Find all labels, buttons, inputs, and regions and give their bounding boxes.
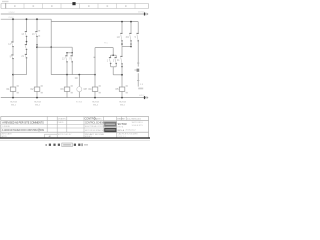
- coil pin A1: [99, 85, 101, 87]
- contact blade: [121, 34, 122, 41]
- svg-text:9CT03: 9CT03: [34, 101, 41, 103]
- svg-text:13: 13: [62, 59, 65, 61]
- junction dot H2 95: [94, 74, 96, 76]
- branch 138 mid: [137, 41, 139, 67]
- contact terminal top: [25, 44, 27, 45]
- svg-text:M3-1: M3-1: [11, 105, 17, 107]
- svg-text:WH: WH: [83, 89, 87, 91]
- rail 2 left part: [1, 18, 51, 20]
- svg-text:REV A: REV A: [118, 125, 124, 128]
- split dot 113: [112, 54, 114, 56]
- contact blade: [25, 33, 26, 37]
- split bar y52.8: [67, 52, 72, 54]
- svg-text:9: 9: [10, 57, 12, 59]
- contact terminal bottom: [121, 63, 122, 64]
- svg-text:13: 13: [8, 44, 11, 46]
- coil box: [34, 87, 40, 91]
- contact terminal top: [25, 30, 27, 33]
- branch B corner to A: [13, 74, 27, 76]
- branch C coil tail: [36, 91, 38, 97]
- branch 138 low: [137, 73, 139, 86]
- junction dot H2 79: [78, 74, 80, 76]
- svg-text:SHT 3 OF 6: SHT 3 OF 6: [132, 122, 144, 124]
- coil box: [119, 87, 125, 91]
- svg-text:K5: K5: [116, 89, 120, 91]
- contact blade: [121, 57, 122, 64]
- junction dot C rail: [36, 97, 38, 99]
- dot 122 66.6: [121, 66, 123, 68]
- contact terminal top: [71, 55, 73, 56]
- coil K3 drop: [66, 75, 68, 87]
- bottom rail right ref mark: [144, 96, 145, 99]
- svg-text:1: 1: [107, 60, 109, 62]
- contact terminal bottom: [72, 61, 73, 62]
- svg-text:APPROVED BY: APPROVED BY: [58, 133, 72, 136]
- svg-text:21: 21: [21, 56, 24, 58]
- svg-text:K3: K3: [61, 89, 65, 91]
- coil pin A2: [41, 92, 43, 94]
- tb right border: [148, 116, 150, 138]
- zone numbers: [14, 5, 127, 7]
- svg-text:1/2: 1/2: [117, 37, 121, 39]
- sub wire 72 down: [71, 62, 73, 75]
- dot 122 44: [121, 43, 123, 45]
- branch A wire low: [12, 59, 14, 88]
- zone divider ticks: [6, 3, 135, 8]
- svg-text:M3-4: M3-4: [93, 105, 99, 107]
- branch A wire mid: [12, 47, 14, 56]
- branch 138 top: [137, 22, 139, 34]
- logo lower text dashes: [105, 129, 115, 130]
- contact blade: [137, 34, 138, 41]
- junction dot A T: [12, 74, 14, 76]
- contact blade: [66, 57, 67, 62]
- svg-text:1.3: 1.3: [140, 84, 144, 86]
- split dot 72: [71, 52, 73, 54]
- H1 corner down: [71, 47, 73, 53]
- svg-text:9CT03: 9CT03: [92, 101, 99, 103]
- pin numbers: [38, 30, 40, 31]
- svg-text:A REVISED AS PER SITE COMMENTS: A REVISED AS PER SITE COMMENTS: [2, 122, 44, 125]
- rail L1: [1, 13, 146, 15]
- tb logo upper: [104, 122, 116, 127]
- tb logo lower: [104, 128, 116, 133]
- contact terminal bottom: [26, 57, 27, 58]
- svg-text:MOTOR M3 STARTER: MOTOR M3 STARTER: [85, 129, 105, 132]
- H3 corner down: [112, 48, 114, 56]
- contact terminal top: [129, 33, 131, 34]
- sub wire 67 up: [66, 53, 68, 56]
- svg-text:M3-5: M3-5: [120, 105, 126, 107]
- coil pin A1: [71, 85, 73, 87]
- net H2: [51, 74, 95, 76]
- tick 138 80.5: [137, 79, 139, 82]
- svg-text:A 12/04/13 ISSUED FOR CONSTRUC: A 12/04/13 ISSUED FOR CONSTRUCTION: [2, 129, 44, 132]
- contact terminal top: [11, 55, 13, 56]
- junction dot 95 rail: [94, 97, 96, 99]
- svg-text:41: 41: [117, 60, 120, 62]
- branch 122 m1: [121, 41, 123, 47]
- svg-text:3/4: 3/4: [126, 37, 130, 39]
- coil box: [10, 87, 16, 91]
- svg-text:24VDC: 24VDC: [9, 12, 16, 14]
- zone strip bottom line: [1, 8, 149, 10]
- lamp label small: [75, 77, 78, 79]
- rail L1 right ref mark: [144, 13, 145, 16]
- tb line3: [1, 123, 104, 125]
- contact terminal bottom: [12, 58, 13, 59]
- branch B wire top: [26, 19, 28, 31]
- svg-text:PANEL: PANEL: [95, 117, 103, 120]
- branch B wire m1: [26, 36, 28, 44]
- merge bar y66.8: [111, 66, 117, 68]
- contact blade: [12, 43, 13, 47]
- sub wire 72 up: [71, 53, 73, 56]
- split bar y55.2: [111, 54, 117, 56]
- contact terminal top: [137, 33, 139, 34]
- coil pin A1: [126, 85, 128, 87]
- rail 2 right part: [51, 21, 138, 23]
- zone strip top line: [1, 3, 149, 5]
- branch C wire long: [36, 36, 38, 87]
- sub 116 up: [115, 55, 117, 57]
- svg-text:SCALE NTS: SCALE NTS: [132, 124, 144, 127]
- contact blade: [109, 59, 110, 64]
- contact J2 body: [137, 69, 140, 72]
- svg-text:3: 3: [113, 60, 115, 62]
- svg-text:13: 13: [32, 34, 35, 36]
- contact terminal bottom: [130, 40, 131, 41]
- net H3: [95, 47, 113, 49]
- merged wire down: [112, 67, 114, 75]
- sub wire 67 down: [66, 62, 68, 75]
- svg-text:REV A: REV A: [118, 129, 125, 132]
- svg-text:0 ISSUE: 0 ISSUE: [2, 126, 10, 128]
- coil pin A2: [99, 92, 101, 94]
- contact terminal top: [115, 57, 117, 58]
- junction dot 122 rail2: [121, 21, 123, 23]
- zone strip left end: [0, 4, 2, 9]
- junction dot B rail2: [26, 18, 28, 20]
- junction dot 122 H4: [121, 74, 123, 76]
- svg-text:CHKD: CHKD: [58, 122, 64, 124]
- branch 122 m2: [121, 47, 123, 57]
- junction dot A rail2: [12, 18, 14, 20]
- coil pin A2: [126, 92, 128, 94]
- contact terminal bottom: [66, 61, 67, 62]
- faint header text top-left: [2, 1, 9, 2]
- tb top line: [1, 115, 149, 117]
- junction dot H2 67: [66, 74, 68, 76]
- coil box: [64, 87, 70, 91]
- svg-text:K1: K1: [7, 89, 11, 91]
- junction dot 122 rail: [121, 97, 123, 99]
- bottom rail: [1, 97, 146, 99]
- junction dot A rail: [12, 97, 14, 99]
- tick 138 63: [137, 62, 139, 65]
- branch C wire top: [36, 19, 38, 31]
- junction dot B 41.6: [26, 41, 28, 43]
- logo texture slit: [105, 123, 115, 126]
- branch A wire top: [12, 19, 14, 42]
- svg-text:9: 9: [69, 59, 71, 61]
- sub 110 up: [110, 55, 112, 57]
- coil box: [92, 87, 98, 91]
- branch B wire low: [26, 58, 28, 75]
- viewer faint line: [0, 139, 150, 142]
- split dot 67: [66, 52, 68, 54]
- tick 95: [94, 56, 96, 59]
- contact blade: [36, 33, 37, 37]
- contact blade: [25, 46, 26, 50]
- contact terminal bottom: [116, 63, 117, 64]
- branch 131 low: [130, 41, 132, 47]
- svg-text:DRAWN: DRAWN: [58, 117, 66, 120]
- net H1: [37, 46, 72, 48]
- svg-text:K4: K4: [89, 89, 93, 91]
- svg-text:JM: JM: [41, 130, 44, 132]
- svg-text:M3-2: M3-2: [35, 105, 41, 107]
- svg-text:9CT03: 9CT03: [76, 101, 83, 103]
- page bottom thick border: [0, 137, 150, 138]
- tb line5: [1, 131, 149, 133]
- svg-text:D-123456-001: D-123456-001: [127, 119, 142, 121]
- svg-text:K2: K2: [31, 89, 35, 91]
- label 138 end: [138, 88, 143, 90]
- contact terminal top: [65, 55, 67, 56]
- branch 122 low: [121, 64, 123, 87]
- contact blade: [130, 34, 131, 41]
- pager buttons left: [49, 144, 51, 146]
- contact terminal top: [35, 30, 37, 33]
- svg-text:24VDC: 24VDC: [138, 11, 145, 13]
- junction dot x51/H1: [50, 46, 52, 48]
- contact terminal top: [120, 33, 122, 34]
- pager box: [62, 143, 73, 147]
- lamp tail: [78, 92, 80, 98]
- svg-text:0VDC: 0VDC: [139, 95, 145, 97]
- contact blade: [12, 56, 13, 59]
- lamp circle: [77, 87, 82, 92]
- svg-text:2013-04-12: 2013-04-12: [125, 130, 136, 132]
- svg-text:9CT03: 9CT03: [119, 101, 126, 103]
- tb line2: [1, 119, 149, 121]
- branch 95 tail: [94, 91, 96, 97]
- junction dot C rail2: [36, 18, 38, 20]
- tb line4: [1, 127, 104, 129]
- rail 2 step: [50, 19, 52, 21]
- coil pin A2: [71, 92, 73, 94]
- branch 131 top: [130, 22, 132, 34]
- lamp drop: [78, 75, 80, 87]
- svg-text:5: 5: [135, 37, 137, 39]
- viewer small dot: [45, 144, 47, 146]
- pager buttons right: [74, 144, 76, 146]
- coil pin A1: [17, 85, 19, 87]
- pager box text: [63, 144, 71, 146]
- contact terminal bottom: [26, 49, 27, 50]
- branch 95 wire: [94, 48, 96, 87]
- contact terminal top: [120, 56, 122, 57]
- branch A coil tail: [12, 91, 14, 97]
- zone strip right end: [147, 4, 149, 9]
- contact blade: [115, 59, 116, 64]
- svg-text:9CT03: 9CT03: [118, 122, 127, 126]
- centering mark: [72, 2, 75, 5]
- merge bar y46.6: [122, 46, 131, 48]
- contact terminal bottom: [26, 36, 27, 37]
- contact terminal bottom: [121, 40, 122, 41]
- branch 122 top: [121, 22, 123, 34]
- sub 116 down: [115, 63, 117, 66]
- coil K3 tail: [66, 91, 68, 97]
- small dot C 44.8: [36, 44, 38, 46]
- dot 131 merge: [130, 46, 132, 48]
- junction dot 131 rail2: [130, 21, 132, 23]
- contact J2 bar: [134, 69, 138, 71]
- svg-text:13: 13: [21, 34, 24, 36]
- branch B wire m2: [26, 49, 28, 54]
- tb verticals: [39, 116, 126, 137]
- contact terminal bottom: [138, 40, 139, 41]
- pager extra marks right: [81, 143, 82, 146]
- contact blade: [25, 55, 26, 58]
- junction dot C H1: [36, 46, 38, 48]
- contact blade: [71, 57, 72, 62]
- contact terminal bottom: [110, 63, 111, 64]
- branch 122 tail: [121, 91, 123, 97]
- contact terminal top: [11, 42, 13, 43]
- contact terminal bottom: [12, 46, 13, 47]
- contact terminal top: [109, 57, 111, 58]
- svg-text:9CT03: 9CT03: [10, 101, 17, 103]
- contact terminal top: [25, 54, 27, 55]
- svg-text:PLC: PLC: [104, 43, 109, 45]
- tb left border: [0, 116, 2, 138]
- sub 110 down: [110, 63, 112, 66]
- coil pin A2: [17, 92, 19, 94]
- contact terminal bottom: [36, 36, 37, 37]
- dot 131 44: [130, 43, 132, 45]
- coil pin A1: [41, 85, 43, 87]
- net H4: [113, 74, 122, 76]
- feeder x51: [50, 22, 52, 75]
